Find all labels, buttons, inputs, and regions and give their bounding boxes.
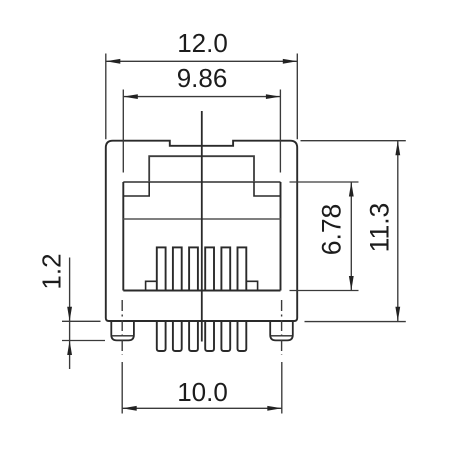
contact blade 2 bbox=[173, 247, 182, 290]
right shoulder step bbox=[246, 281, 257, 290]
dim 1.2 lower arrow bbox=[67, 341, 72, 356]
pcb pin 6 bbox=[238, 321, 247, 351]
contact blade 3 bbox=[189, 247, 198, 290]
dim 6.78 top arrow bbox=[349, 182, 354, 197]
dim 9.86 right arrow bbox=[266, 94, 281, 99]
pcb pin 1 bbox=[157, 321, 166, 351]
dim 12.0 left arrow bbox=[106, 59, 121, 64]
left mounting post bbox=[111, 321, 134, 340]
dim 11.3 bottom arrow bbox=[395, 307, 400, 322]
left post chamfer line bbox=[112, 335, 133, 337]
dim 12.0 extension lines bbox=[106, 54, 297, 140]
right mounting post bbox=[270, 321, 293, 340]
connector body outline bbox=[106, 141, 297, 321]
right post centerline bbox=[281, 300, 283, 355]
svg-text:9.86: 9.86 bbox=[177, 63, 228, 93]
dim 1.2 upper arrow bbox=[67, 307, 72, 322]
pcb pin 2 bbox=[173, 321, 182, 351]
dim 9.86 extension lines bbox=[123, 90, 280, 173]
latch recess step bbox=[149, 156, 254, 182]
contact blade 4 bbox=[205, 247, 214, 290]
left post centerline bbox=[121, 300, 123, 355]
dim 11.3 line bbox=[397, 141, 399, 322]
opening mid line bbox=[123, 218, 280, 220]
dim 6.78 extension lines bbox=[290, 182, 359, 291]
pcb pin 4 bbox=[205, 321, 214, 351]
dim 10.0 left arrow bbox=[122, 406, 137, 411]
pcb pin 3 bbox=[189, 321, 198, 351]
svg-text:12.0: 12.0 bbox=[177, 28, 228, 58]
dim 6.78 bottom arrow bbox=[349, 276, 354, 291]
vertical centerline bbox=[201, 111, 203, 342]
opening outline bbox=[123, 181, 280, 183]
dim 11.3 top arrow bbox=[395, 141, 400, 156]
dim 6.78 line bbox=[350, 182, 352, 291]
svg-text:6.78: 6.78 bbox=[317, 204, 347, 256]
svg-text:10.0: 10.0 bbox=[177, 377, 228, 407]
left shoulder step bbox=[146, 281, 157, 290]
dim 12.0 right arrow bbox=[283, 59, 298, 64]
dim 1.2 extension lines bbox=[62, 321, 105, 340]
dim 12.0 line bbox=[106, 60, 297, 62]
pcb pin 5 bbox=[221, 321, 230, 351]
dim 11.3 extension lines bbox=[301, 141, 406, 322]
contact blade 1 bbox=[157, 247, 166, 290]
dim 9.86 line bbox=[123, 96, 280, 98]
dim 1.2 line bbox=[69, 258, 71, 370]
dim 10.0 right arrow bbox=[267, 406, 282, 411]
left corner notch bbox=[123, 182, 149, 196]
right corner notch bbox=[254, 182, 281, 196]
dim 10.0 extension lines bbox=[122, 362, 282, 414]
dim 10.0 line bbox=[122, 407, 282, 409]
contact blade 5 bbox=[221, 247, 230, 290]
dim 9.86 left arrow bbox=[123, 94, 138, 99]
svg-text:11.3: 11.3 bbox=[365, 203, 395, 253]
right post chamfer line bbox=[271, 335, 292, 337]
svg-text:1.2: 1.2 bbox=[37, 253, 67, 289]
contact blade 6 bbox=[238, 247, 247, 290]
